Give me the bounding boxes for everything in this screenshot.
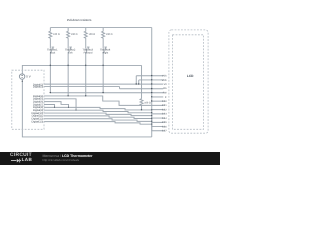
svg-text:100 Ω: 100 Ω — [106, 33, 113, 36]
svg-text:Digital(13): Digital(13) — [31, 120, 43, 123]
CircuitLab logo — [10, 153, 32, 158]
wire digital pin row p6 to LCD pin 9 — [44, 107, 163, 110]
wire right trunk — [151, 28, 153, 137]
wire column1 below rail — [49, 65, 51, 92]
wire R5 bottom — [141, 105, 143, 110]
wire digital pin row p4 staircase — [44, 102, 69, 108]
wire digital pin row p3 staircase — [44, 99, 76, 110]
wire row to LCD pin 4 — [120, 88, 164, 90]
switch SW2 pushbutton — [69, 47, 72, 53]
svg-text:100 Ω: 100 Ω — [71, 33, 78, 36]
junction dots — [22, 65, 153, 125]
footer bar — [0, 152, 220, 165]
resistor R3 — [84, 30, 87, 38]
svg-text:100 Ω: 100 Ω — [89, 33, 96, 36]
svg-text:Right: Right — [103, 51, 109, 54]
svg-text:Left: Left — [68, 51, 72, 54]
LCD outer dashed box — [169, 30, 208, 133]
wire R4 to SW4 — [102, 39, 104, 48]
svg-text:100 Ω: 100 Ω — [144, 102, 151, 105]
svg-text:RS: RS — [163, 87, 167, 90]
switch contact terminals — [50, 48, 104, 53]
resistor R1 — [49, 30, 52, 38]
wire column4 below rail — [102, 65, 104, 92]
wire digital pin row p9 to LCD pin 12 — [44, 116, 163, 122]
wire column3 stub — [85, 28, 87, 31]
wire digital pin row p8 to LCD pin 11 — [44, 113, 163, 118]
switch SW3 pushbutton — [87, 47, 90, 53]
wire SW4 to 5V rail — [102, 53, 104, 66]
Arduino module dashed box — [12, 70, 44, 129]
wire riser p1 to LCD pin 4 row — [119, 87, 121, 89]
svg-text:VSS: VSS — [162, 75, 167, 78]
switch SW4 pushbutton — [104, 47, 107, 53]
wire SW2 to 5V rail — [67, 53, 69, 66]
wire R1 to SW1 — [49, 39, 51, 48]
wire column3 below rail — [85, 65, 87, 96]
wire column1 stub — [49, 28, 51, 31]
svg-text:RW: RW — [163, 92, 168, 95]
svg-text:Back: Back — [50, 51, 56, 54]
wire V1 minus down and bottom GND return — [22, 79, 151, 137]
wire R3 to SW3 — [85, 39, 87, 48]
svg-text:DB3: DB3 — [162, 113, 167, 116]
LCD inner dashed box — [172, 35, 203, 130]
wire digital pin row p11 to LCD pin 14 — [44, 122, 163, 131]
wire column2 stub — [67, 28, 69, 31]
wire LCD pin row 2 VDD — [139, 80, 164, 84]
wire LCD pin row 1 VSS — [136, 76, 163, 84]
svg-text:DB4: DB4 — [162, 117, 167, 120]
svg-text:Digital(3): Digital(3) — [33, 85, 44, 88]
svg-text:E: E — [165, 96, 167, 99]
footer title text — [43, 154, 93, 158]
wire column4 stub — [102, 28, 104, 31]
wire digital pin row p10 to LCD pin 13 — [44, 119, 163, 127]
wire digital pin row p1 — [44, 86, 120, 88]
svg-text:Forward: Forward — [84, 51, 93, 54]
wire 5V rail — [22, 65, 141, 73]
wire R2 to SW2 — [67, 39, 69, 48]
wire digital pin row p5 staircase — [44, 105, 55, 108]
switch SW1 pushbutton — [51, 47, 54, 53]
resistor R2 — [67, 30, 70, 38]
svg-text:LCD: LCD — [187, 74, 194, 78]
wire digital pin row p2 to LCD pin 6 — [44, 96, 163, 105]
wire SW3 to 5V rail — [85, 53, 87, 66]
svg-text:DB1: DB1 — [162, 104, 167, 107]
wire LCD pin row 7 stub — [152, 100, 164, 102]
svg-text:100 Ω: 100 Ω — [53, 33, 60, 36]
wire row SW1 SW3 SW4 to LCD pin 5 — [50, 92, 163, 94]
wire top GND rail — [50, 27, 151, 29]
svg-text:5 V: 5 V — [26, 74, 30, 78]
wire digital pin row p0 to LCD pin 3 — [44, 83, 163, 85]
svg-text:VDD: VDD — [162, 79, 167, 82]
svg-text:Pull-down resistors: Pull-down resistors — [67, 18, 92, 22]
resistor R4 — [102, 30, 105, 38]
svg-text:DB7: DB7 — [162, 130, 167, 133]
svg-text:V0: V0 — [164, 83, 168, 86]
wire digital pin row p7 to LCD pin 10 — [44, 110, 163, 114]
wire SW1 to 5V rail — [49, 53, 51, 66]
footer url text — [43, 158, 80, 162]
voltage source V1 5V — [19, 74, 24, 79]
svg-text:DB0: DB0 — [162, 100, 167, 103]
wire rail down to R5 — [141, 65, 143, 98]
svg-text:DB5: DB5 — [162, 121, 167, 124]
resistor R5 — [140, 99, 143, 106]
wire LCD pin row 6 stub — [152, 96, 164, 98]
svg-text:DB6: DB6 — [162, 125, 167, 128]
svg-text:DB2: DB2 — [162, 109, 167, 112]
wire column2 below rail — [67, 65, 69, 96]
